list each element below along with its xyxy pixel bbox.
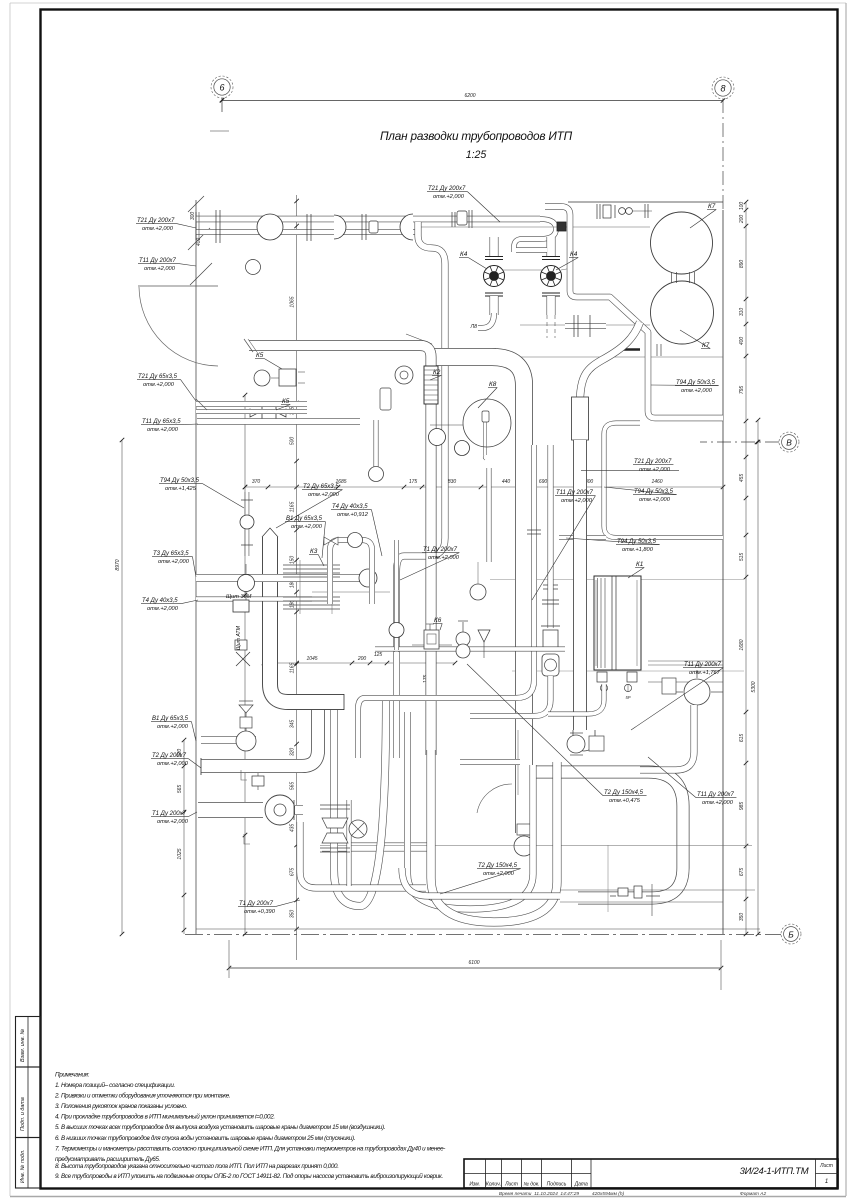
svg-text:Т11 Ду 200x7: Т11 Ду 200x7 — [139, 258, 177, 264]
left wall — [195, 200, 197, 934]
svg-text:6200: 6200 — [464, 93, 475, 99]
bottom right riser down — [640, 705, 694, 770]
svg-text:Т1 Ду 200x7: Т1 Ду 200x7 — [423, 547, 458, 553]
pipe T1 left bottom with pump — [198, 802, 263, 818]
horizontal pipe pair y740 to T11 — [460, 759, 520, 765]
wide pipe U-turn at bottom — [573, 730, 595, 751]
valve cluster left bottom — [257, 773, 259, 790]
thin long line y846 — [320, 845, 752, 847]
svg-text:985: 985 — [739, 802, 745, 811]
K6 box assembly — [424, 630, 439, 649]
pipe T94 vertical from top — [545, 207, 723, 419]
right wall under axis 8 — [722, 210, 724, 934]
small riser T94 left x247 — [245, 492, 250, 556]
nested U bend inner — [408, 712, 534, 909]
svg-text:отм.+2,000: отм.+2,000 — [147, 606, 179, 612]
top run end caps — [195, 212, 197, 240]
svg-text:370: 370 — [252, 479, 261, 485]
svg-text:К3: К3 — [310, 548, 318, 555]
expansion funnel symbol — [478, 630, 490, 642]
leader for T11 bottom right — [648, 757, 696, 798]
svg-text:К7: К7 — [708, 203, 716, 210]
svg-text:565: 565 — [177, 785, 183, 794]
pipe T21 end 180 bend — [540, 219, 556, 239]
svg-text:345: 345 — [290, 720, 296, 729]
svg-text:отм.+2,000: отм.+2,000 — [561, 498, 593, 504]
svg-text:отм.+2,000: отм.+2,000 — [144, 266, 176, 272]
pipe pair y662 T11 +1767 — [648, 660, 723, 662]
pump circle 478,592 — [470, 584, 486, 600]
wide pipe Du200 vertical x524 — [492, 357, 524, 833]
svg-text:Колич.: Колич. — [486, 1182, 501, 1188]
riser x534 to elbow left — [358, 445, 534, 758]
svg-text:Т21 Ду 200x7: Т21 Ду 200x7 — [428, 186, 466, 192]
circle fitting 355,541 — [348, 533, 363, 548]
svg-text:440: 440 — [502, 479, 511, 485]
svg-text:Т21 Ду 200x7: Т21 Ду 200x7 — [137, 218, 175, 224]
svg-text:К2: К2 — [433, 369, 441, 376]
svg-text:1460: 1460 — [651, 479, 662, 485]
svg-text:отм.+1,425: отм.+1,425 — [165, 486, 197, 492]
wide pipe right elbow run — [530, 772, 683, 898]
svg-text:Щит 30М: Щит 30М — [226, 594, 252, 600]
horizontal dimension chain y487 — [245, 486, 723, 488]
short pipe above pumps — [516, 247, 547, 253]
bottom center fitting stack reducers — [320, 804, 350, 806]
pipe T94 loop left-down-right — [604, 423, 723, 538]
svg-text:Л8: Л8 — [470, 324, 478, 330]
svg-text:Лист: Лист — [819, 1163, 833, 1169]
K1 bottom connection pipe — [548, 684, 604, 714]
duct end cap right — [343, 694, 345, 710]
svg-text:Т21 Ду 200x7: Т21 Ду 200x7 — [634, 459, 672, 465]
svg-text:400: 400 — [739, 337, 745, 346]
svg-text:1680: 1680 — [739, 639, 745, 650]
left pipe T2 wide end cap — [200, 758, 202, 775]
svg-text:6100: 6100 — [468, 960, 479, 966]
wide duct left vertical — [270, 537, 344, 702]
svg-text:5. В высших точках всех трубоп: 5. В высших точках всех трубопроводов дл… — [55, 1123, 385, 1131]
pipe y403 left — [196, 401, 307, 407]
svg-text:Т2 Ду 150x4,5: Т2 Ду 150x4,5 — [478, 863, 518, 869]
cluster small pumps mid — [429, 429, 446, 446]
valve bowtie at 332,541 — [324, 537, 331, 545]
T21 right long shelf — [581, 470, 679, 472]
bottom right elbow circle — [684, 679, 710, 705]
svg-text:Т11 Ду 65x3,5: Т11 Ду 65x3,5 — [142, 419, 181, 425]
left dimension chain x245 — [244, 395, 246, 934]
svg-text:К6: К6 — [434, 617, 442, 624]
pump on riser x550 — [542, 654, 559, 676]
svg-text:К1: К1 — [636, 561, 644, 568]
valve on riser x550 — [543, 630, 558, 648]
elbow circle at 368,578 — [359, 569, 377, 587]
riser flanges x550 — [542, 599, 559, 601]
svg-text:Т2 Ду 150x4,5: Т2 Ду 150x4,5 — [604, 790, 644, 796]
svg-text:7. Термометры и манометры расс: 7. Термометры и манометры расставить сог… — [55, 1144, 445, 1152]
fitting bracket x362 and cartridge — [361, 214, 363, 240]
horizontal pipe pair y649 — [375, 647, 565, 652]
small dark valve x562 — [557, 222, 566, 231]
valve circle x246 — [245, 564, 247, 600]
pipe B1 y742 left — [201, 736, 256, 744]
heat exchanger K1 — [594, 576, 641, 670]
svg-text:отм.+2,000: отм.+2,000 — [143, 382, 175, 388]
wide pipe Du150 horizontal y357 — [432, 348, 496, 366]
svg-text:Лист: Лист — [504, 1182, 518, 1188]
duct chamfer top — [262, 528, 278, 537]
tank room top fittings — [596, 204, 598, 219]
svg-text:565: 565 — [290, 782, 296, 791]
svg-text:435: 435 — [290, 824, 296, 833]
svg-text:отм.+2,000: отм.+2,000 — [433, 194, 465, 200]
svg-text:4. При прокладке трубопроводов: 4. При прокладке трубопроводов в ИТП мин… — [55, 1113, 275, 1121]
left dimension chain x184 — [183, 740, 185, 934]
pipe return to header — [514, 239, 540, 252]
hanger marks — [241, 770, 247, 780]
svg-text:6: 6 — [219, 83, 224, 93]
pipe continuation thin y590 — [312, 591, 390, 593]
wide pipe insulated section rect — [572, 397, 589, 440]
wall break marks top-left — [188, 196, 204, 212]
svg-text:125: 125 — [374, 652, 383, 658]
svg-text:Т4 Ду 40x3,5: Т4 Ду 40x3,5 — [332, 504, 368, 510]
svg-text:Щит АТМ: Щит АТМ — [236, 625, 242, 650]
pump K4 column 2 suction pipe — [547, 237, 556, 256]
pipe drop x489 below K8 — [487, 468, 492, 562]
K5 valve assembly 1 — [279, 369, 296, 386]
riser x550 with valve and pump — [548, 445, 554, 628]
svg-text:Т11 Ду 200x7: Т11 Ду 200x7 — [556, 490, 594, 496]
svg-text:5300: 5300 — [751, 681, 757, 692]
svg-text:200: 200 — [357, 656, 367, 662]
pump1 discharge elbow left — [478, 313, 494, 328]
svg-text:Взам. инв. №: Взам. инв. № — [20, 1028, 26, 1062]
svg-text:1. Номера позиций– согласно сп: 1. Номера позиций– согласно спецификации… — [55, 1081, 175, 1089]
U bend 2 larger — [431, 750, 557, 922]
svg-text:В1 Ду 65x3,5: В1 Ду 65x3,5 — [152, 716, 189, 722]
K2 side pipes — [374, 420, 379, 468]
axis line 8 vertical dash-dot — [722, 99, 724, 212]
axis circle B — [781, 924, 801, 944]
svg-text:Т21 Ду 65x3,5: Т21 Ду 65x3,5 — [138, 374, 178, 380]
pump inter-connection line — [503, 269, 542, 271]
svg-text:1165: 1165 — [290, 501, 296, 512]
elbow circle x253 run2 — [246, 260, 261, 275]
svg-text:6. В низших точках трубопровод: 6. В низших точках трубопроводов для спу… — [55, 1134, 355, 1142]
svg-text:5Р: 5Р — [625, 695, 630, 700]
horizontal pipe y847 left part — [322, 843, 429, 852]
svg-text:Подпись: Подпись — [547, 1182, 567, 1188]
branch pipe down x418 to long right riser — [397, 222, 446, 758]
pipe from pump area to riser y326 — [565, 323, 606, 329]
pump2 discharge stub dashed — [546, 315, 548, 338]
axis circle V — [779, 432, 799, 452]
pump K4 1 flanges — [485, 256, 503, 258]
half-circle fitting x413 open right — [400, 214, 413, 240]
bottom right small fittings — [618, 888, 628, 896]
svg-text:1025: 1025 — [177, 848, 183, 859]
svg-text:795: 795 — [739, 386, 745, 395]
tank K7 lower — [651, 281, 714, 344]
svg-text:1: 1 — [825, 1179, 828, 1185]
left stamp cell Vzam inv N — [16, 1017, 41, 1068]
pump cluster at wide pipe U-turn — [567, 735, 585, 753]
svg-text:150: 150 — [290, 556, 296, 565]
fitting bracket x216 top run — [215, 210, 217, 243]
svg-text:1:25: 1:25 — [466, 149, 487, 161]
pump K4 1 discharge pipe — [490, 296, 499, 315]
K8 tank — [463, 399, 511, 447]
svg-text:9. Все трубопроводы в ИТП улож: 9. Все трубопроводы в ИТП уложить на под… — [55, 1172, 443, 1180]
small dimension 175 x430 — [429, 655, 431, 700]
dark valve mark y349 — [621, 348, 640, 350]
bottom dimension 6100 — [229, 967, 721, 969]
long leader for T2 Du150 — [467, 664, 603, 796]
thin reference line y357 — [432, 356, 723, 358]
tank2 bottom stubs — [656, 344, 658, 356]
svg-text:455: 455 — [739, 474, 745, 483]
fitting bracket x307 — [306, 214, 308, 241]
svg-text:Формат А2: Формат А2 — [740, 1191, 767, 1197]
bottom thin pipes right — [560, 889, 755, 891]
extension line y579 — [490, 579, 744, 581]
svg-text:350: 350 — [290, 910, 296, 919]
thin pipe line to valve — [420, 226, 650, 228]
svg-text:К5: К5 — [282, 398, 290, 405]
right dimension chain x758 5300 — [757, 420, 759, 934]
svg-text:100: 100 — [739, 202, 745, 211]
svg-text:Инв. № подл.: Инв. № подл. — [20, 1150, 26, 1183]
svg-text:отм.+2,000: отм.+2,000 — [157, 761, 189, 767]
K5 valve assembly 2 — [262, 406, 276, 420]
door swing arc — [139, 287, 218, 366]
pipe y599 left — [196, 597, 312, 602]
svg-text:отм.+2,000: отм.+2,000 — [428, 555, 460, 561]
elbow circle x270 top run — [257, 214, 283, 240]
horizontal dimension chain y663 — [264, 662, 455, 664]
svg-text:200: 200 — [739, 215, 745, 225]
svg-text:Т11 Ду 200x7: Т11 Ду 200x7 — [684, 662, 722, 668]
left dimension chain 8970 — [121, 440, 123, 934]
svg-text:отм.+0,912: отм.+0,912 — [337, 512, 369, 518]
thin vertical x608 bottom — [607, 845, 609, 912]
svg-text:310: 310 — [739, 308, 745, 317]
svg-text:Т3 Ду 65x3,5: Т3 Ду 65x3,5 — [153, 551, 189, 557]
pump K4 1 body — [484, 266, 505, 287]
title block table — [464, 1159, 838, 1188]
svg-text:Подп. и дата: Подп. и дата — [20, 1097, 26, 1131]
svg-text:615: 615 — [739, 734, 745, 743]
axis circle 8 — [712, 77, 734, 99]
half-circle fitting x334 — [334, 215, 346, 239]
pump K4 2 body — [541, 266, 562, 287]
svg-text:В1 Ду 65x3,5: В1 Ду 65x3,5 — [286, 516, 323, 522]
svg-text:320: 320 — [290, 748, 296, 757]
svg-text:515: 515 — [739, 553, 745, 562]
axis circle 6 — [211, 76, 233, 98]
svg-text:отм.+2,000: отм.+2,000 — [291, 524, 323, 530]
fitting brackets x452-x472 with cartridge — [451, 212, 453, 227]
svg-text:№ док.: № док. — [523, 1182, 539, 1188]
B1 funnel and valve above — [245, 712, 247, 731]
extension line y671 — [512, 670, 744, 672]
svg-text:Т4 Ду 40x3,5: Т4 Ду 40x3,5 — [142, 598, 178, 604]
pump at 280,810 — [265, 795, 295, 825]
svg-text:отм.+2,000: отм.+2,000 — [308, 492, 340, 498]
svg-text:350: 350 — [739, 913, 745, 922]
tank connection pipes — [671, 272, 673, 283]
svg-text:690: 690 — [539, 479, 548, 485]
riser flange pairs — [527, 529, 541, 531]
bottom wall — [196, 928, 760, 930]
svg-text:1045: 1045 — [306, 656, 317, 662]
K2 heat exchanger — [424, 366, 438, 404]
pump K4 2 discharge pipe — [547, 296, 556, 315]
svg-text:отм.+0,390: отм.+0,390 — [244, 909, 276, 915]
svg-text:Т94 Ду 50x3,5: Т94 Ду 50x3,5 — [160, 478, 200, 484]
pump drop pipe to bottom — [300, 822, 426, 888]
svg-text:8: 8 — [720, 84, 725, 94]
right dimension chain x746 — [745, 202, 747, 934]
pipe T3 y578 left — [196, 574, 360, 582]
svg-text:1065: 1065 — [290, 296, 296, 307]
wide pipe chamfer marks left end — [406, 334, 432, 344]
svg-text:Т1 Ду 200x7: Т1 Ду 200x7 — [239, 901, 274, 907]
svg-text:отм.+1,767: отм.+1,767 — [689, 670, 721, 676]
cooler circle left of K2 — [395, 366, 413, 384]
svg-text:Изм.: Изм. — [469, 1182, 480, 1188]
svg-text:1165: 1165 — [290, 662, 296, 673]
svg-text:675: 675 — [739, 868, 745, 877]
wide pipe S-bend lower — [573, 440, 587, 730]
svg-text:8. Высота трубопроводов указан: 8. Высота трубопроводов указана относите… — [55, 1162, 339, 1170]
svg-text:Т1 Ду 200x7: Т1 Ду 200x7 — [152, 811, 187, 817]
svg-text:500: 500 — [290, 437, 296, 446]
left stamp cell Podp i data — [16, 1067, 41, 1138]
left stamp cell Inv N podl — [16, 1138, 41, 1189]
T4 expansion loop — [330, 540, 372, 604]
door leaf — [138, 285, 218, 287]
pipe y537 left stub — [559, 535, 606, 540]
svg-text:Б: Б — [788, 930, 794, 940]
center vertical dimension chain x297 — [296, 195, 298, 960]
svg-text:К5: К5 — [256, 352, 264, 359]
svg-text:890: 890 — [739, 260, 745, 269]
svg-text:8970: 8970 — [115, 559, 121, 570]
pipe T11 Du200 top run second — [196, 229, 420, 235]
svg-text:отм.+2,000: отм.+2,000 — [639, 467, 671, 473]
svg-text:К4: К4 — [460, 251, 468, 258]
U bend 1 right riser continues — [394, 545, 399, 652]
svg-text:300: 300 — [190, 212, 196, 221]
svg-text:отм.+2,000: отм.+2,000 — [639, 497, 671, 503]
svg-text:отм.+2,000: отм.+2,000 — [158, 559, 190, 565]
K3 panel striping — [283, 564, 340, 566]
vertical thin pipe pair x396 upper — [394, 540, 399, 650]
svg-text:Т2 Ду 65x3,5: Т2 Ду 65x3,5 — [303, 484, 339, 490]
svg-text:420x594мм (h): 420x594мм (h) — [592, 1191, 625, 1197]
svg-text:830: 830 — [448, 479, 457, 485]
quarter arc fitting x490 y795 — [477, 784, 512, 813]
svg-text:Дата: Дата — [574, 1182, 588, 1188]
wide pipe S-branch to x580 riser — [580, 322, 640, 402]
top wall of tank room — [568, 201, 723, 203]
flanges on riser x580 y320 — [573, 315, 575, 337]
svg-text:отм.+2,000: отм.+2,000 — [147, 427, 179, 433]
axis line B horizontal dash-dot — [185, 934, 781, 936]
tank K7 upper — [651, 212, 713, 274]
svg-text:675: 675 — [290, 868, 296, 877]
pump on wide pipe at y846 — [514, 836, 534, 856]
svg-text:предусматривать расширитель Ду: предусматривать расширитель Ду65. — [55, 1155, 160, 1163]
svg-text:отм.+2,000: отм.+2,000 — [142, 226, 174, 232]
svg-text:Примечания:: Примечания: — [55, 1072, 90, 1079]
interior wall y680 — [648, 681, 723, 683]
pipe elbow y345 wide to down x431 — [249, 346, 431, 756]
Shit ATM cabinet symbols — [233, 600, 249, 612]
svg-text:отм.+2,000: отм.+2,000 — [157, 724, 189, 730]
U bend 1 full — [334, 700, 386, 906]
pump K4 column 1 suction pipe — [490, 237, 499, 256]
bottom right fitting box — [662, 678, 676, 694]
svg-text:План разводки трубопроводов ИТ: План разводки трубопроводов ИТП — [380, 129, 573, 143]
svg-text:Т11 Ду 200x7: Т11 Ду 200x7 — [697, 792, 735, 798]
pipe T21 Du200 top run — [196, 216, 540, 223]
pump K4 2 flanges — [542, 256, 560, 258]
svg-text:отм.+0,475: отм.+0,475 — [609, 798, 641, 804]
svg-text:175: 175 — [409, 479, 418, 485]
bottom right horizontal pipe pair — [402, 868, 560, 896]
pipe y411 left — [196, 409, 307, 414]
svg-text:отм.+2,000: отм.+2,000 — [702, 800, 734, 806]
svg-text:3. Положения рукояток кранов п: 3. Положения рукояток кранов показаны ус… — [55, 1103, 187, 1110]
valve circles right of K6 — [456, 632, 470, 646]
svg-text:3И/24-1-ИТП.ТМ: 3И/24-1-ИТП.ТМ — [740, 1166, 809, 1177]
svg-text:К7: К7 — [702, 342, 710, 349]
svg-text:К4: К4 — [570, 251, 578, 258]
svg-text:отм.+2,000: отм.+2,000 — [681, 388, 713, 394]
svg-text:К8: К8 — [489, 381, 497, 388]
top dimension 6200 — [222, 100, 723, 102]
U bend 1 bottom center — [201, 700, 318, 766]
page edge lines — [10, 2, 846, 4]
svg-text:отм.+1,800: отм.+1,800 — [622, 547, 654, 553]
svg-text:Т2 Ду 200x7: Т2 Ду 200x7 — [152, 753, 187, 759]
svg-text:В: В — [786, 438, 792, 448]
svg-text:Время печати 11.10.2024 14:4: Время печати 11.10.2024 14:47:29 — [499, 1191, 580, 1197]
vertical pipe x349 bottom — [347, 800, 352, 886]
chamfer caps y345 pipe — [244, 339, 253, 352]
svg-text:2. Привязки и отметки оборудов: 2. Привязки и отметки оборудования уточн… — [54, 1092, 230, 1100]
svg-text:отм.+2,000: отм.+2,000 — [157, 819, 189, 825]
pipe y421 left — [197, 418, 360, 425]
